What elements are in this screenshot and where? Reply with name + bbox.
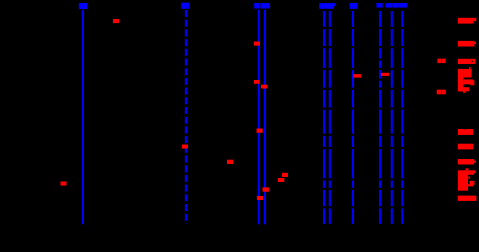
marker R12	[257, 196, 263, 200]
marker R9	[282, 173, 288, 177]
marker R15a	[437, 59, 441, 64]
red text blob S8 arm tip	[474, 170, 476, 173]
line L7 (long-dash blue vertical)	[352, 11, 354, 224]
red text blob S4 mid bump	[471, 80, 475, 85]
line L3 (solid blue vertical)	[258, 10, 260, 225]
red text blob S8 arm	[468, 170, 474, 175]
red text blob S7 bump	[474, 161, 476, 163]
marker R14 (wide bar right of line L8)	[381, 73, 389, 76]
line L6 (long-dash blue vertical)	[329, 11, 331, 224]
marker R13 (wide bar on line L7)	[353, 74, 361, 78]
line L5 (long-dash blue vertical)	[323, 11, 325, 224]
label blob L4	[260, 3, 270, 9]
red text blob S2 bump	[475, 42, 477, 44]
label blob L9	[386, 3, 393, 8]
red text blob S3 inner dot	[472, 61, 473, 62]
red text blob S2	[458, 41, 475, 47]
red text blob S5 notch	[465, 129, 466, 130]
marker R2	[61, 182, 67, 186]
red text blob S4 top bump	[469, 67, 471, 69]
red text blob S6	[458, 144, 473, 150]
line L4 (solid blue vertical)	[264, 10, 266, 225]
marker R8	[257, 129, 263, 133]
label blob L10	[398, 3, 407, 8]
red text blob S8 speckle a	[468, 177, 470, 179]
red text blob S8 speckle b	[470, 181, 475, 185]
red text blob S8 speckle c	[468, 184, 473, 186]
marker R4	[227, 160, 233, 164]
marker R5	[254, 42, 260, 46]
line L8 (dashed blue vertical)	[379, 11, 381, 224]
marker R7	[261, 85, 267, 89]
red text blob S4 vertical bar	[458, 69, 463, 92]
line L1 (solid blue vertical)	[82, 10, 84, 225]
label blob L2	[181, 3, 189, 9]
red text blob S8 top tip	[466, 168, 469, 170]
red text blob S4 mid arm	[463, 79, 473, 84]
marker R3	[182, 145, 188, 149]
marker R16b	[442, 90, 446, 95]
label blob L5/L6 tip	[334, 3, 335, 6]
line L2 (dashed blue vertical)	[185, 10, 187, 224]
red text blob S3	[458, 59, 475, 64]
marker R11	[263, 187, 270, 191]
line L10 (dashed blue vertical)	[401, 11, 403, 224]
red text blob S7	[458, 159, 474, 165]
red text blob S5	[458, 129, 473, 135]
marker R15b	[442, 59, 446, 64]
label blob L7	[350, 3, 358, 9]
red text blob S8 main	[458, 170, 468, 190]
label blob L1	[79, 3, 87, 9]
red text blob S1	[458, 18, 474, 24]
marker R6	[254, 80, 260, 84]
label blob L8	[376, 3, 382, 8]
red text blob S4 tail	[463, 91, 465, 93]
red text blob S10	[458, 196, 477, 201]
marker R10	[278, 178, 284, 182]
label blob L3	[254, 3, 259, 9]
marker R1	[113, 19, 119, 23]
marker R16a	[437, 90, 441, 95]
red text blob S4 top arm	[463, 69, 471, 78]
red text blob S1 tip	[474, 18, 477, 21]
line L9 (dashed blue vertical)	[391, 11, 393, 224]
label blob L5/L6	[319, 3, 334, 9]
label blob L9/L10 middle	[393, 3, 398, 8]
red text blob S4 bottom	[458, 87, 469, 91]
